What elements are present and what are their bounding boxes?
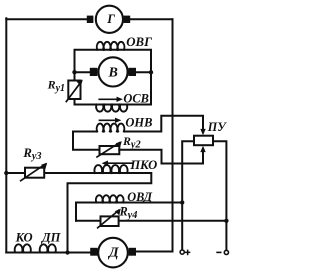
wire B right (133, 71, 151, 73)
terminal circle plus (180, 250, 184, 254)
arrowhead Ry1 (77, 80, 83, 87)
arrowhead Ry4 (115, 209, 121, 216)
wire ONV left loop down to Ry2 (73, 132, 100, 150)
arrowhead ONV (115, 118, 121, 123)
arrowhead Ry3 (41, 163, 47, 170)
plus sign (185, 252, 190, 254)
arrowhead OSV (117, 97, 123, 102)
wire B left (75, 71, 94, 73)
arrow over PKO (106, 162, 132, 164)
terminal square B right (128, 68, 136, 76)
wire OVD row (76, 202, 182, 204)
exciter B box (75, 50, 152, 105)
minus sign (216, 252, 221, 254)
svg-text:ДП: ДП (41, 230, 62, 244)
coil OSV on box bottom (humps down) (96, 105, 127, 112)
wire generator right to right rail (130, 18, 172, 20)
svg-text:ОНВ: ОНВ (125, 116, 152, 130)
arrowhead Ry2 (116, 141, 122, 148)
wire right rail Г to Д (172, 19, 174, 251)
rheostat Ry2 body (100, 146, 120, 154)
wire left rail (5, 18, 7, 252)
arrowhead PU bottom (200, 146, 205, 152)
wire OVD loop left down (75, 203, 77, 221)
rheostat Ry3 arrow (21, 164, 46, 181)
wire Ry3 PKO row (6, 173, 151, 253)
coil OVG on box top (97, 42, 125, 50)
coil KO (15, 244, 31, 252)
rheostat Ry4 body (101, 216, 119, 226)
svg-text:КО: КО (15, 230, 33, 244)
PU box (194, 136, 213, 146)
wire Ry2 right to PU bottom (119, 150, 203, 164)
arrow over OSV (99, 98, 119, 100)
svg-text:Rу2: Rу2 (122, 134, 141, 150)
terminal square G right (124, 16, 131, 23)
coil PKO (94, 165, 127, 173)
terminal square G left (87, 16, 94, 23)
rheostat Ry4 arrow (98, 210, 119, 228)
svg-text:ПКО: ПКО (129, 158, 157, 172)
arrow over ONV (99, 119, 117, 121)
rheostat Ry2 arrow (97, 143, 120, 158)
arrowhead PKO (102, 161, 108, 166)
node dot OVD plus rail (180, 200, 184, 204)
motor D circle (98, 238, 128, 268)
wire PU left + plus rail (182, 141, 194, 250)
node dot left rail Ry3 (4, 171, 8, 175)
svg-text:Rу4: Rу4 (119, 205, 138, 221)
svg-text:ПУ: ПУ (207, 120, 227, 134)
coil DP (40, 244, 56, 252)
terminal square D right (129, 248, 136, 256)
wire PU right + minus rail (213, 141, 226, 250)
node dot B box right (149, 70, 153, 74)
svg-text:ОСВ: ОСВ (123, 91, 148, 105)
wire bottom left to motor (6, 252, 90, 254)
wire top from left rail to generator (6, 18, 87, 20)
terminal square B left (90, 68, 98, 76)
svg-text:Д: Д (107, 246, 119, 261)
exciter B circle (98, 57, 127, 86)
generator G circle (96, 6, 123, 33)
rheostat Ry1 body (68, 81, 80, 100)
coil OVD (96, 195, 124, 202)
coil ONV (97, 124, 125, 132)
wire motor right to rail (136, 251, 173, 253)
wire ONV right to PU top (124, 116, 203, 132)
svg-text:Г: Г (106, 12, 115, 26)
svg-text:В: В (108, 65, 118, 80)
wire Ry4 row (76, 220, 226, 222)
node dot PKO return bottom (65, 250, 69, 254)
terminal circle minus (224, 250, 228, 254)
node dot B box left (72, 70, 76, 74)
svg-text:ОВД: ОВД (127, 190, 152, 204)
terminal square D left (90, 248, 97, 256)
rheostat Ry3 body (25, 168, 44, 178)
rheostat Ry1 arrow (66, 82, 81, 102)
svg-text:Rу1: Rу1 (47, 78, 65, 94)
node dot Ry4 minus rail (224, 219, 228, 223)
arrowhead PU top (200, 129, 205, 135)
svg-text:Rу3: Rу3 (22, 146, 41, 162)
svg-text:ОВГ: ОВГ (126, 35, 152, 49)
